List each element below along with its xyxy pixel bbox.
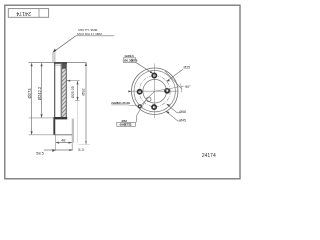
leader from lower label to marker: [137, 98, 147, 115]
hub wall right line: [65, 63, 67, 118]
svg-text:5.3: 5.3: [78, 147, 84, 152]
svg-text:◌Ø9ⓂTⓆ: ◌Ø9ⓂTⓆ: [118, 122, 132, 127]
bolt hole left: [138, 90, 142, 94]
hub lower wall bar: [53, 119, 55, 134]
svg-text:Ø45: Ø45: [179, 119, 186, 123]
svg-text:Ø68: Ø68: [179, 110, 186, 114]
disc top edge: [54, 62, 67, 64]
chamfer line: [55, 64, 62, 66]
extension stubs above disc: [52, 52, 54, 62]
border frame: [5, 5, 240, 179]
hub right face lower: [71, 119, 73, 151]
dim Ø242.2 vertical line: [31, 64, 33, 134]
dim 58.5 extension vertical: [55, 135, 57, 151]
friction face right: [60, 63, 62, 118]
svg-text:Ø0.3ⓂT6: Ø0.3ⓂT6: [124, 57, 138, 62]
svg-text:24174: 24174: [16, 10, 31, 16]
flange step bar: [53, 117, 67, 119]
svg-text:Ø25: Ø25: [183, 65, 190, 69]
crossing construction line: [165, 71, 182, 90]
dim Ø273 bottom extension: [79, 144, 91, 146]
diagonal ray to service hole: [141, 91, 155, 105]
bolt hole bottom: [152, 105, 156, 109]
angle ray: [155, 86, 185, 91]
leader Ø68: [167, 104, 181, 112]
top extension line: [29, 61, 87, 63]
hub top corner blob: [62, 64, 67, 69]
chamfer circle: [134, 71, 175, 112]
outer circle: [132, 68, 178, 114]
vertical centerline: [154, 64, 156, 119]
extension line left at step: [29, 117, 54, 119]
note leader: [54, 36, 76, 52]
service hole M8: [138, 105, 141, 108]
dim Ø25.05 extension top: [67, 80, 80, 82]
dim Ø25.05 line lower extension: [77, 100, 79, 142]
leader 2xM8: [127, 105, 139, 106]
hub section hatch: [62, 64, 67, 118]
note underline: [76, 35, 115, 37]
svg-text:Ø25.05: Ø25.05: [71, 86, 75, 98]
hub pilot circle: [143, 79, 167, 103]
part number box top-left: [8, 9, 48, 18]
angle arc: [181, 84, 182, 93]
dim Ø25.05 extension bottom: [75, 99, 80, 101]
dim Ø25.05 vertical line: [77, 81, 79, 100]
bolt circle (dash-dot): [139, 76, 170, 107]
svg-text:MAX DIA 17.3MM: MAX DIA 17.3MM: [77, 32, 102, 36]
leader Ø25: [167, 69, 183, 81]
horizontal centerline: [128, 90, 179, 92]
bolt hole right: [165, 89, 169, 93]
hub wall left line: [61, 63, 63, 118]
svg-text:Ø242.2: Ø242.2: [37, 86, 42, 100]
svg-text:Ø273: Ø273: [27, 88, 32, 99]
extension line left at hub bottom: [29, 134, 55, 136]
leader lower label: [135, 115, 138, 122]
svg-text:58.5: 58.5: [36, 151, 45, 156]
bolt hole top: [152, 73, 156, 77]
small marker circle: [146, 97, 151, 102]
sheet background: [0, 0, 246, 186]
disc left face: [54, 63, 56, 118]
leader Ø45: [166, 112, 181, 121]
svg-text:24174: 24174: [202, 153, 216, 159]
dim Ø273 vertical line: [85, 63, 87, 144]
svg-text:48: 48: [61, 138, 66, 143]
svg-text:2xM8X1.25-6H: 2xM8X1.25-6H: [111, 101, 130, 105]
dim Ø178 vertical line: [41, 64, 43, 117]
svg-text:90°: 90°: [185, 85, 191, 89]
svg-text:Ø92: Ø92: [80, 88, 85, 95]
hub bottom edge: [54, 134, 72, 136]
dim 48 line: [56, 142, 72, 144]
dim 58.5 line: [44, 149, 73, 151]
leader to top hole: [136, 62, 153, 73]
